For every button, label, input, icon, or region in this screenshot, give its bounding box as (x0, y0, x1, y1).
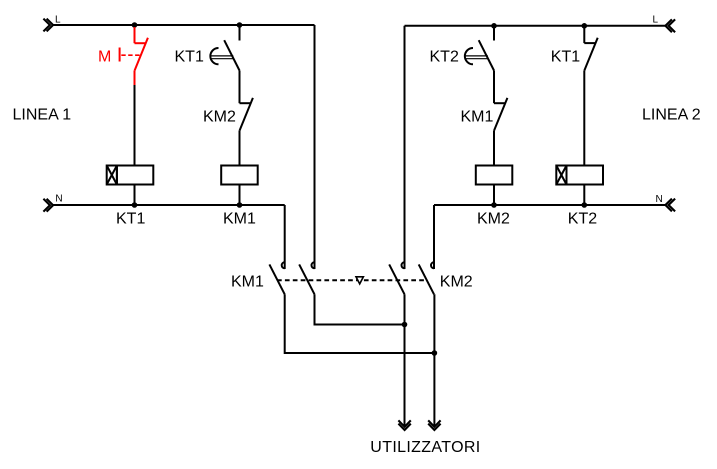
contact KT1 (NO, timed closing) (210, 25, 239, 71)
svg-text:KM2: KM2 (203, 109, 236, 126)
wire feed from N1 rail down to KM1 pole A (284, 205, 286, 263)
wire pole C to load (404, 294, 406, 426)
svg-text:KT1: KT1 (175, 48, 204, 65)
wire KM1 contact to KM2 coil (493, 131, 495, 166)
wire KT2 contact to KM1 contact (493, 71, 495, 104)
wire KM2 coil to N rail (493, 185, 495, 206)
timer coil KT2 (box with X section) (556, 166, 603, 185)
svg-text:KM1: KM1 (231, 274, 264, 291)
contact KM2 power pole C (389, 262, 404, 294)
wire pole B to output node 1 (315, 294, 405, 324)
svg-text:LINEA 1: LINEA 1 (13, 107, 72, 124)
wire KT2 coil to N rail (583, 185, 585, 206)
wire KT1 coil to N rail (134, 185, 136, 206)
contact KT2 (NO, timed closing) (465, 26, 494, 71)
linkage marker triangle (356, 277, 363, 284)
wire KT1 NC contact to KT2 coil (583, 71, 585, 166)
node L1-N branch 1 junction (132, 202, 138, 208)
wire feed from L1 rail down to KM1 pole B (314, 25, 316, 263)
svg-text:KT1: KT1 (116, 211, 145, 228)
svg-text:KM1: KM1 (223, 211, 256, 228)
contact KM2 (NC interlock) (240, 98, 253, 131)
load arrow output 1 (398, 420, 410, 430)
wire KM1 coil to N rail (239, 185, 241, 206)
node output 2 junction (432, 350, 438, 356)
svg-text:KT1: KT1 (551, 48, 580, 65)
svg-text:N: N (656, 194, 663, 205)
contact KT1 (NC, line 2 side) (584, 26, 597, 71)
wire L rail LINEA 2 (405, 25, 666, 27)
svg-text:L: L (55, 15, 61, 26)
wire N rail LINEA 2 (434, 204, 665, 206)
contact KM1 (NC interlock) (494, 98, 507, 131)
svg-text:KT2: KT2 (430, 48, 459, 65)
coil KM2 (476, 166, 513, 185)
svg-text:KT2: KT2 (568, 211, 597, 228)
node L2-N branch 4 junction (582, 202, 588, 208)
timer coil KT1 (box with X section) (107, 166, 154, 185)
contact KM1 power pole A (269, 262, 284, 294)
contact KM2 power pole D (419, 262, 434, 294)
svg-text:L: L (653, 15, 659, 26)
wire KM2 contact to KM1 coil (239, 131, 241, 166)
wire feed from N2 rail down to KM2 pole D (433, 205, 435, 263)
wire pole A to output node 2 (285, 294, 435, 353)
node L1-L branch 1 junction (132, 22, 138, 28)
node L1-N branch 2 junction (237, 202, 243, 208)
wire N rail LINEA 1 (53, 204, 285, 206)
pushbutton M (NC, red) (120, 27, 148, 85)
source arrow line 2 N (665, 199, 675, 212)
wire KT1 contact to KM2 contact (239, 71, 241, 104)
svg-text:M: M (98, 48, 111, 65)
node output 1 junction (402, 322, 408, 328)
wire L rail LINEA 1 (53, 24, 314, 26)
svg-text:KM1: KM1 (461, 109, 494, 126)
contact KM1 power pole B (299, 262, 314, 294)
source arrow line 1 N (43, 199, 53, 212)
wire pole D to load (433, 294, 435, 426)
svg-text:KM2: KM2 (477, 211, 510, 228)
node L2-N branch 3 junction (491, 202, 497, 208)
source arrow line 1 L (43, 19, 53, 32)
mechanical linkage (dashed) (277, 279, 426, 281)
node L2-L branch 4 junction (582, 23, 588, 29)
node L2-L branch 3 junction (491, 23, 497, 29)
svg-text:UTILIZZATORI: UTILIZZATORI (370, 439, 480, 456)
wire feed from L2 rail down to KM2 pole C (404, 26, 406, 263)
svg-text:N: N (55, 194, 62, 205)
coil KM1 (221, 166, 258, 185)
source arrow line 2 L (665, 19, 675, 32)
svg-text:LINEA 2: LINEA 2 (642, 107, 701, 124)
svg-text:KM2: KM2 (440, 274, 473, 291)
wire M to KT1 coil (134, 85, 136, 166)
load arrow output 2 (428, 420, 440, 430)
node L1-L branch 2 junction (237, 22, 243, 28)
